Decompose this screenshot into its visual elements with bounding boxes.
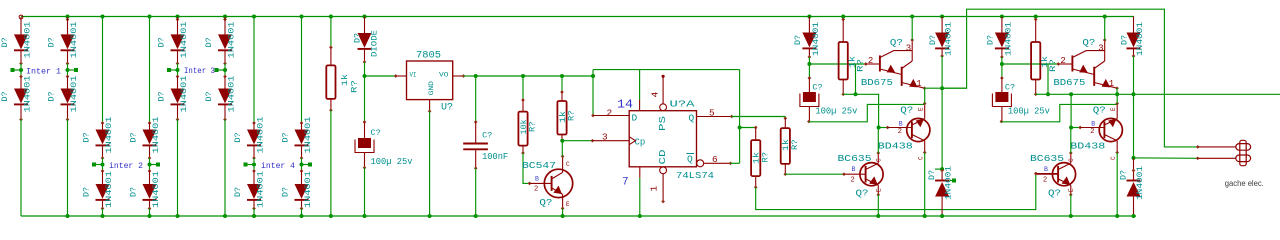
diode D? DIODE (x364.5) xyxy=(363,15,367,19)
wire BD438 emitter up to emitter net xyxy=(924,88,926,103)
diode D? 1N4001 upper xyxy=(218,34,232,49)
wire base node to BD675 base xyxy=(1002,63,1058,65)
diode D? 1N4001 upper xyxy=(301,123,303,130)
node mid junction xyxy=(66,68,70,72)
wire ground bottom rail xyxy=(21,215,1136,217)
pin 7 GND xyxy=(639,167,641,178)
wire stub at output node xyxy=(935,168,942,170)
svg-text:D?: D? xyxy=(1121,35,1130,45)
pin 4 PS xyxy=(660,104,667,111)
svg-text:C: C xyxy=(918,156,925,160)
svg-text:Q?: Q? xyxy=(890,37,903,48)
pin C of BC635 xyxy=(1070,153,1072,163)
pin C of BD438 xyxy=(924,141,926,153)
wire D input net xyxy=(592,76,594,116)
svg-text:Inter 1: Inter 1 xyxy=(26,67,61,77)
svg-text:7: 7 xyxy=(622,177,629,189)
svg-text:5: 5 xyxy=(709,108,715,119)
diode D? 1N4001 flyback high xyxy=(1133,17,1135,33)
wire Cp net xyxy=(562,140,592,142)
svg-text:3: 3 xyxy=(602,132,608,143)
svg-text:Cp: Cp xyxy=(635,138,646,148)
svg-text:1N4001: 1N4001 xyxy=(257,116,266,153)
wire stub (switch connection) xyxy=(171,69,178,71)
pin 2 D input xyxy=(593,115,629,117)
svg-text:Q?: Q? xyxy=(900,105,913,116)
capacitor C? 100nF xyxy=(475,76,477,122)
svg-text:D?: D? xyxy=(48,37,57,47)
wire from +12V xyxy=(101,15,105,19)
wire +12V top rail xyxy=(21,16,1134,18)
wire GND pin to ground rail xyxy=(429,111,431,216)
svg-text:D?: D? xyxy=(354,33,363,43)
wire mid link xyxy=(102,158,104,171)
resistor R? 1k xyxy=(1034,15,1038,19)
node mid junction xyxy=(223,68,227,72)
svg-text:1N4001: 1N4001 xyxy=(105,116,114,153)
diode D? 1N4001 flyback high xyxy=(940,15,944,19)
diode D? 1N4001 upper xyxy=(149,123,151,130)
wire collector to +12V xyxy=(1104,17,1106,41)
svg-text:1N4001: 1N4001 xyxy=(228,75,237,112)
wire BD438 collector to ground xyxy=(1116,153,1118,217)
wire R1 to ground xyxy=(330,110,332,216)
svg-text:C: C xyxy=(875,158,882,162)
wire flyback high to emitter net xyxy=(941,56,943,88)
svg-text:100µ 25v: 100µ 25v xyxy=(815,107,858,117)
pin 1 CD xyxy=(660,167,667,174)
svg-text:2: 2 xyxy=(534,186,538,194)
svg-text:inter 2: inter 2 xyxy=(109,161,143,171)
wire VI node to regulator xyxy=(365,75,396,77)
node mid junction xyxy=(252,163,256,167)
svg-text:D?: D? xyxy=(234,132,243,142)
wire xyxy=(223,15,227,19)
svg-text:C?: C? xyxy=(812,83,822,93)
wire VO to +5V node xyxy=(464,75,476,77)
wire mid link xyxy=(253,158,255,171)
svg-text:1: 1 xyxy=(916,79,921,89)
svg-text:1N4001: 1N4001 xyxy=(24,21,33,58)
svg-text:R?: R? xyxy=(567,110,576,121)
svg-text:1N4001: 1N4001 xyxy=(812,22,821,56)
diode D? 1N4001 upper xyxy=(14,34,28,49)
wire emitter net xyxy=(925,87,967,89)
svg-text:100nF: 100nF xyxy=(482,152,508,162)
transistor Q? BC547 xyxy=(530,182,552,184)
wire mid link xyxy=(20,64,22,77)
wire flyback low to ground xyxy=(941,197,943,217)
wire mid link xyxy=(177,64,179,77)
svg-text:B: B xyxy=(852,166,856,173)
wire section A output to connector pin 1 (over the top) xyxy=(942,9,1198,147)
pin 3 collector of BD675 xyxy=(911,40,913,61)
svg-text:E: E xyxy=(875,188,882,192)
wire diode to base node xyxy=(808,57,810,64)
resistor R? 1k (x562) xyxy=(561,76,563,92)
svg-text:2: 2 xyxy=(1090,128,1094,136)
connector J? gache elec. xyxy=(1198,146,1236,148)
svg-text:D: D xyxy=(632,113,638,124)
svg-text:BC635: BC635 xyxy=(1030,153,1064,164)
svg-text:6: 6 xyxy=(712,154,718,165)
wire R10k to BC547 base xyxy=(523,153,530,183)
node R bleed junction xyxy=(738,126,742,130)
svg-text:Q: Q xyxy=(687,154,693,165)
svg-text:2: 2 xyxy=(1043,177,1047,185)
pin 3 collector of BD675 xyxy=(1104,40,1106,61)
wire C2 to ground xyxy=(475,168,477,216)
svg-text:7805: 7805 xyxy=(416,51,441,62)
diode D? 1N4001 flyback low xyxy=(941,169,943,180)
svg-text:3: 3 xyxy=(1098,44,1103,54)
wire to ground xyxy=(253,209,255,217)
node base junction xyxy=(1000,62,1004,66)
wire C1 to ground xyxy=(364,168,366,216)
svg-text:1: 1 xyxy=(649,186,660,192)
svg-text:74LS74: 74LS74 xyxy=(676,170,714,181)
svg-text:1N4001: 1N4001 xyxy=(228,21,237,58)
svg-text:1N4001: 1N4001 xyxy=(1004,22,1013,56)
diode D? 1N4001 lower xyxy=(253,171,255,184)
wire diode to VI node xyxy=(364,62,366,76)
wire from +12V xyxy=(148,15,152,19)
svg-text:R?: R? xyxy=(857,59,866,72)
node VI junction xyxy=(363,74,367,78)
svg-text:D?: D? xyxy=(794,35,803,45)
svg-text:B: B xyxy=(899,121,903,128)
wire Q output net xyxy=(732,116,786,118)
pin C of BC547 xyxy=(562,156,564,172)
svg-text:BC547: BC547 xyxy=(522,160,556,171)
diode D? 1N4001 upper xyxy=(253,123,255,130)
wire xyxy=(176,15,180,19)
pin C of BD438 xyxy=(1116,141,1118,153)
wire to ground xyxy=(149,209,151,217)
node mid junction xyxy=(19,68,23,72)
wire xyxy=(66,15,70,19)
svg-text:1N4001: 1N4001 xyxy=(70,21,79,58)
svg-text:BD675: BD675 xyxy=(861,77,893,88)
resistor R? 1k (x756) xyxy=(755,128,757,141)
wire R756 bottom long run to BC635-3 base xyxy=(756,174,1036,210)
wire stub (switch connection) xyxy=(218,69,225,71)
node mid junction xyxy=(101,163,105,167)
svg-text:2: 2 xyxy=(851,177,855,185)
svg-text:D?: D? xyxy=(130,132,139,142)
svg-text:Q?: Q? xyxy=(1093,105,1106,116)
diode D? 1N4001 flyback low xyxy=(1133,158,1135,181)
wire stub (switch connection) xyxy=(68,69,75,71)
transistor Q? BD438 xyxy=(1099,118,1122,141)
wire mid link xyxy=(224,64,226,77)
svg-text:inter 4: inter 4 xyxy=(261,161,295,171)
diode D? 1N4001 (series) xyxy=(807,15,811,19)
diode D? 1N4001 upper xyxy=(171,34,185,49)
node mid junction xyxy=(176,68,180,72)
svg-text:U?A: U?A xyxy=(670,99,695,110)
svg-text:14: 14 xyxy=(617,99,633,112)
transistor Q? BD675 darlington xyxy=(1071,55,1073,71)
svg-text:D?: D? xyxy=(1120,170,1129,180)
node BD438 base junction xyxy=(1069,126,1073,130)
svg-text:2: 2 xyxy=(1060,56,1065,66)
wire to ground xyxy=(177,120,179,217)
wire mid link xyxy=(67,64,69,77)
wire to ground xyxy=(67,120,69,217)
node base junction xyxy=(807,62,811,66)
wire stub (switch connection) xyxy=(150,164,157,166)
wire diode to base node xyxy=(1001,57,1003,64)
pin E of BD438 xyxy=(924,104,926,119)
wire to ground xyxy=(102,209,104,217)
svg-text:1N4001: 1N4001 xyxy=(945,22,954,56)
transistor Q? BD675 darlington xyxy=(879,55,881,71)
resistor R1 1k (x330) xyxy=(329,15,333,19)
svg-text:1k: 1k xyxy=(782,139,791,151)
wire xyxy=(19,15,23,19)
svg-text:B: B xyxy=(1044,166,1048,173)
svg-text:D?: D? xyxy=(928,170,937,180)
svg-text:1N4001: 1N4001 xyxy=(152,171,161,208)
svg-text:4: 4 xyxy=(650,92,661,98)
wire BC547 emitter to ground xyxy=(562,208,564,216)
svg-text:E: E xyxy=(918,107,925,111)
svg-text:1N4001: 1N4001 xyxy=(304,171,313,208)
diode D? 1N4001 lower xyxy=(224,77,226,89)
wire BD438 collector to ground xyxy=(924,153,926,217)
IC U?A 74LS74 flip-flop xyxy=(629,111,696,167)
svg-text:Q?: Q? xyxy=(856,188,869,199)
svg-text:D?: D? xyxy=(282,132,291,142)
wire collector to +12V xyxy=(911,17,913,41)
svg-text:D?: D? xyxy=(234,187,243,197)
wire BD438 emitter up to emitter net xyxy=(1116,94,1118,103)
wire to ground xyxy=(20,120,22,217)
svg-text:B: B xyxy=(535,176,539,183)
wire emitter net down to output node xyxy=(1133,94,1135,158)
svg-text:C: C xyxy=(1068,158,1075,162)
svg-text:R?: R? xyxy=(528,121,537,132)
svg-text:BC635: BC635 xyxy=(838,153,872,164)
svg-text:Q?: Q? xyxy=(1048,188,1061,199)
wire emitter net xyxy=(1116,88,1118,94)
svg-text:D?: D? xyxy=(986,35,995,45)
svg-text:1N4001: 1N4001 xyxy=(304,116,313,153)
wire to BD438 base xyxy=(1071,127,1080,129)
wire to ground xyxy=(301,209,303,217)
svg-text:1: 1 xyxy=(1109,79,1114,89)
svg-text:1N4001: 1N4001 xyxy=(180,75,189,112)
transistor Q? BC635 xyxy=(860,163,883,186)
node emitter net junction xyxy=(940,86,944,90)
svg-text:C?: C? xyxy=(482,131,492,141)
svg-text:D?: D? xyxy=(83,187,92,197)
pin 3 Cp input xyxy=(592,140,629,142)
diode D? 1N4001 (series) xyxy=(1000,15,1004,19)
pin E of BC635 xyxy=(877,185,879,195)
svg-text:E: E xyxy=(566,201,570,208)
svg-text:100µ 25v: 100µ 25v xyxy=(1008,107,1051,117)
resistor R? 1k (x785) xyxy=(784,117,786,118)
node mid junction xyxy=(300,163,304,167)
svg-text:DIODE: DIODE xyxy=(371,30,380,57)
wire base node to BD675 base xyxy=(809,63,865,65)
pin 6 Q-bar output xyxy=(697,160,704,167)
diode D? 1N4001 lower xyxy=(301,171,303,184)
diode D? 1N4001 lower xyxy=(67,77,69,89)
transistor Q? BC635 xyxy=(1052,163,1075,186)
wire flyback high to emitter net xyxy=(1133,56,1135,94)
diode D? 1N4001 lower xyxy=(149,171,151,184)
wire cap bottom to emitter net xyxy=(809,104,925,121)
svg-text:1N4001: 1N4001 xyxy=(105,171,114,208)
wire BC635 collector to BD438 base node xyxy=(1070,128,1072,154)
dangling wire stub xyxy=(950,180,954,182)
diode D? 1N4001 lower xyxy=(102,171,104,184)
svg-text:1k: 1k xyxy=(341,74,350,86)
svg-text:B: B xyxy=(1091,121,1095,128)
svg-text:R?: R? xyxy=(351,80,360,93)
wire mid link xyxy=(149,158,151,171)
svg-text:gache elec.: gache elec. xyxy=(1225,179,1264,188)
pin E of BC635 xyxy=(1070,185,1072,195)
svg-text:Inter 3: Inter 3 xyxy=(184,66,215,76)
svg-text:D?: D? xyxy=(1,37,10,47)
svg-text:D?: D? xyxy=(158,37,167,47)
pin 14 VCC xyxy=(639,70,641,100)
svg-text:D?: D? xyxy=(205,91,214,101)
svg-text:D?: D? xyxy=(205,37,214,47)
svg-text:D?: D? xyxy=(83,132,92,142)
pin E of BD438 xyxy=(1116,104,1118,119)
node output junction xyxy=(940,167,944,171)
node +5V junction xyxy=(474,74,478,78)
pin GND of 7805 xyxy=(429,100,431,112)
wire BC635 emitter to ground xyxy=(1070,195,1072,216)
svg-text:2: 2 xyxy=(607,108,613,119)
svg-text:U?: U? xyxy=(441,103,453,114)
wire flyback low to ground xyxy=(1133,197,1135,217)
svg-text:D?: D? xyxy=(48,91,57,101)
wire BC635 collector to BD438 base node xyxy=(877,128,879,154)
wire R785 to BC635 base xyxy=(785,173,844,175)
pin C of BC635 xyxy=(877,153,879,163)
pin VO of 7805 xyxy=(453,75,464,77)
pin E of BC547 xyxy=(562,194,564,208)
svg-text:PS: PS xyxy=(658,116,668,131)
svg-text:D?: D? xyxy=(158,91,167,101)
svg-text:R?: R? xyxy=(1049,59,1058,72)
svg-text:D?: D? xyxy=(282,187,291,197)
svg-text:2: 2 xyxy=(868,56,873,66)
svg-text:D?: D? xyxy=(929,35,938,45)
resistor R? 10k (x523) xyxy=(522,76,524,100)
capacitor C? 100u 25v (input) xyxy=(364,122,366,138)
wire to ground xyxy=(224,120,226,217)
wire BC635 emitter to ground xyxy=(877,195,879,216)
wire from +12V xyxy=(300,15,304,19)
svg-text:C?: C? xyxy=(371,128,381,138)
wire VI node down to C1 xyxy=(364,76,366,122)
svg-text:1N4001: 1N4001 xyxy=(1136,166,1145,200)
wire to BD438 base xyxy=(879,127,888,129)
wire stub (switch connection) xyxy=(302,164,309,166)
svg-text:BD438: BD438 xyxy=(878,141,913,152)
diode D? 1N4001 lower xyxy=(177,77,179,89)
svg-text:1N4001: 1N4001 xyxy=(180,21,189,58)
svg-text:1N4001: 1N4001 xyxy=(1136,22,1145,56)
node emitter net junction xyxy=(1132,92,1136,96)
node output junction xyxy=(1132,156,1136,160)
svg-text:1N4001: 1N4001 xyxy=(257,171,266,208)
capacitor C? 100u 25v xyxy=(1001,64,1003,78)
resistor R? 1k xyxy=(841,15,845,19)
wire stub (switch connection) xyxy=(96,164,103,166)
wire mid link xyxy=(301,158,303,171)
svg-text:R?: R? xyxy=(761,152,770,163)
svg-text:Q: Q xyxy=(689,113,695,124)
svg-text:D?: D? xyxy=(1,91,10,101)
svg-text:C: C xyxy=(1110,156,1117,160)
svg-text:1k: 1k xyxy=(753,152,762,164)
wire +5V bus xyxy=(476,75,593,77)
svg-text:D?: D? xyxy=(130,187,139,197)
diode D? 1N4001 upper xyxy=(61,34,75,49)
wire cap bottom to emitter net xyxy=(1001,104,1117,121)
svg-text:E: E xyxy=(1068,188,1075,192)
wire to R 1k bleed xyxy=(740,127,756,129)
node mid junction xyxy=(148,163,152,167)
svg-text:1N4001: 1N4001 xyxy=(24,75,33,112)
svg-text:E: E xyxy=(1110,107,1117,111)
svg-text:BD438: BD438 xyxy=(1070,141,1105,152)
wire stub (switch connection) xyxy=(14,69,21,71)
svg-text:VO: VO xyxy=(439,72,449,80)
wire stub (switch connection) xyxy=(247,164,254,166)
svg-text:CD: CD xyxy=(658,150,668,165)
svg-text:BD675: BD675 xyxy=(1053,77,1085,88)
wire VCC branch down to Qbar pin xyxy=(739,70,741,164)
svg-text:1N4001: 1N4001 xyxy=(945,166,954,200)
wire branch to resistor node xyxy=(855,64,857,94)
svg-text:R?: R? xyxy=(791,139,800,150)
svg-text:C: C xyxy=(566,161,570,168)
svg-text:Q?: Q? xyxy=(539,197,552,208)
wire BC547 collector to Cp node xyxy=(561,141,563,157)
capacitor C? 100u 25v xyxy=(808,64,810,78)
node Cp junction xyxy=(560,139,564,143)
wire emitter net down to output node xyxy=(941,88,943,169)
svg-text:1N4001: 1N4001 xyxy=(70,75,79,112)
node BD438 base junction xyxy=(877,126,881,130)
svg-text:Q?: Q? xyxy=(1082,37,1095,48)
wire from +12V xyxy=(252,15,256,19)
regulator U? 7805 xyxy=(407,61,453,100)
svg-text:2: 2 xyxy=(898,128,902,136)
svg-text:100µ 25v: 100µ 25v xyxy=(371,157,414,167)
wire branch to resistor node xyxy=(1047,64,1049,94)
diode D? 1N4001 lower xyxy=(20,77,22,89)
svg-text:GND: GND xyxy=(428,81,436,96)
node emitter branch to BD438 base chain xyxy=(1069,92,1073,96)
transistor Q? BD438 xyxy=(907,118,930,141)
svg-text:3: 3 xyxy=(906,44,911,54)
wire resistor node to BD438 base chain xyxy=(856,94,879,127)
wire section B output to connector pin 2 xyxy=(1134,157,1198,159)
pin 5 Q output xyxy=(697,116,732,118)
svg-text:C?: C? xyxy=(1005,83,1015,93)
